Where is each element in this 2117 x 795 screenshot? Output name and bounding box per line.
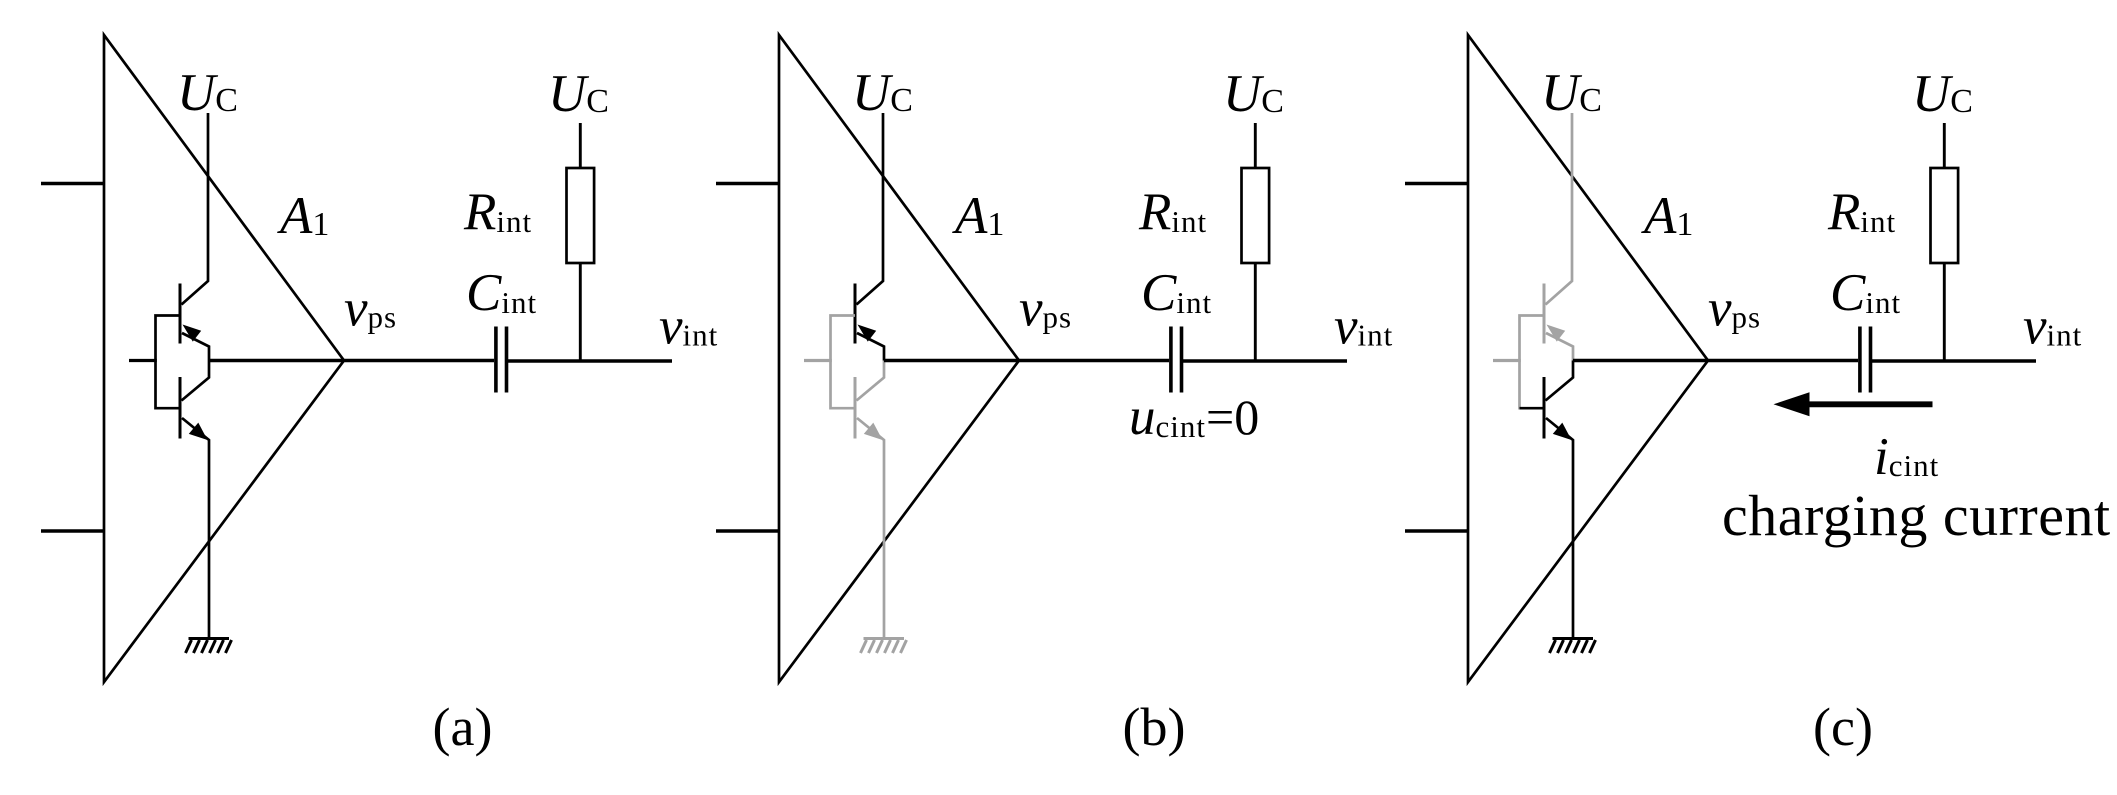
svg-text:(c): (c) [1813, 697, 1873, 757]
svg-text:vint: vint [659, 298, 718, 356]
svg-text:UC: UC [1541, 64, 1602, 122]
ground symbol (a) [186, 639, 232, 654]
wire: drive input stub to bases (b) [804, 359, 832, 362]
svg-text:icint: icint [1874, 428, 1939, 486]
wire: U_C supply to R_int (c) [1943, 123, 1946, 168]
transistor Q1 emitter arrow (a) [183, 325, 202, 342]
transistor Q2 emitter to ground (c) [1546, 418, 1573, 638]
transistor Q1 (top, pull-up) base bar (b) [854, 284, 857, 344]
svg-text:ucint=0: ucint=0 [1129, 388, 1259, 446]
wire: U_C supply to Q1 collector (c) [1546, 113, 1573, 305]
wire: non-inverting input stub (a) [41, 182, 104, 186]
wire: U_C supply to Q1 collector (a) [182, 113, 209, 305]
svg-text:(a): (a) [433, 697, 493, 757]
wire: inverting input stub (b) [716, 529, 779, 533]
charging current arrow (pointing left) [1774, 392, 1933, 416]
wire: base bracket lower arm (a) [156, 407, 181, 410]
wire: non-inverting input stub (c) [1405, 182, 1468, 186]
wire: R_int to v_int node (a) [579, 263, 582, 361]
svg-text:vint: vint [1334, 298, 1393, 356]
op-amp A1 triangle (c) [1468, 35, 1708, 682]
wire: C_int to v_int node (c) [1872, 359, 2036, 362]
wire: drive input stub to bases (a) [129, 359, 157, 362]
capacitor C_int right plate (c) [1869, 327, 1873, 393]
wire: base bracket (c) [1520, 316, 1545, 410]
resistor R_int body (b) [1242, 168, 1270, 263]
wire: non-inverting input stub (b) [716, 182, 779, 186]
svg-text:Rint: Rint [1827, 183, 1896, 241]
ground symbol (c) [1550, 639, 1596, 654]
svg-text:vps: vps [1019, 280, 1072, 338]
svg-text:Rint: Rint [463, 183, 532, 241]
capacitor C_int left plate (b) [1169, 327, 1173, 393]
wire: C_int to v_int node (b) [1183, 359, 1347, 362]
transistor Q1 emitter (b) [857, 333, 884, 361]
svg-text:UC: UC [852, 64, 913, 122]
op-amp A1 triangle (b) [779, 35, 1019, 682]
svg-text:A1: A1 [277, 187, 329, 245]
svg-text:vps: vps [344, 280, 397, 338]
ground symbol (b) [861, 639, 907, 654]
wire: inverting input stub (a) [41, 529, 104, 533]
transistor Q1 emitter (c) [1546, 333, 1573, 361]
transistor Q1 emitter (a) [182, 333, 209, 361]
wire: U_C supply to R_int (b) [1254, 123, 1257, 168]
svg-text:Cint: Cint [466, 264, 537, 322]
op-amp A1 triangle (a) [104, 35, 344, 682]
svg-text:Cint: Cint [1830, 264, 1901, 322]
capacitor C_int right plate (a) [505, 327, 509, 393]
wire: v_ps node from amp output to C_int (b) [884, 359, 1169, 362]
wire: U_C supply to Q1 collector (b) [857, 113, 884, 305]
transistor Q2 emitter to ground (b) [857, 418, 884, 638]
transistor Q2 collector to output node (b) [857, 361, 885, 401]
wire: base bracket (b) [831, 316, 856, 410]
wire: R_int to v_int node (b) [1254, 263, 1257, 361]
transistor Q2 emitter to ground (a) [182, 418, 209, 638]
capacitor C_int right plate (b) [1180, 327, 1184, 393]
transistor Q2 emitter arrow (b) [864, 423, 883, 440]
svg-text:vint: vint [2023, 298, 2082, 356]
svg-text:UC: UC [1223, 65, 1284, 123]
wire: base bracket lower arm (c) [1520, 407, 1545, 410]
transistor Q1 (top, pull-up) base bar (c) [1543, 284, 1546, 344]
transistor Q2 collector to output node (c) [1546, 361, 1574, 401]
transistor Q1 (top, pull-up) base bar (a) [179, 284, 182, 344]
svg-text:A1: A1 [952, 187, 1004, 245]
wire: base bracket lower arm (b) [831, 407, 856, 410]
svg-text:charging current: charging current [1722, 483, 2111, 548]
transistor Q1 emitter arrow (c) [1547, 325, 1566, 342]
svg-text:Rint: Rint [1138, 183, 1207, 241]
svg-text:UC: UC [548, 65, 609, 123]
capacitor C_int left plate (c) [1858, 327, 1862, 393]
transistor Q2 (bottom, pull-down) base bar (a) [179, 377, 182, 439]
wire: drive input stub to bases (c) [1493, 359, 1521, 362]
svg-text:vps: vps [1708, 280, 1761, 338]
wire: R_int to v_int node (c) [1943, 263, 1946, 361]
transistor Q2 collector to output node (a) [182, 361, 210, 401]
wire: U_C supply to R_int (a) [579, 123, 582, 168]
transistor Q1 emitter arrow (b) [858, 325, 877, 342]
resistor R_int body (c) [1931, 168, 1959, 263]
wire: v_ps node from amp output to C_int (c) [1573, 359, 1858, 362]
wire: C_int to v_int node (a) [508, 359, 672, 362]
transistor Q2 emitter arrow (a) [189, 423, 208, 440]
transistor Q2 (bottom, pull-down) base bar (c) [1543, 377, 1546, 439]
svg-text:UC: UC [177, 64, 238, 122]
wire: v_ps node from amp output to C_int (a) [209, 359, 494, 362]
wire: base bracket (a) [156, 316, 181, 410]
svg-text:(b): (b) [1123, 697, 1186, 757]
svg-text:A1: A1 [1641, 187, 1693, 245]
transistor Q2 emitter arrow (c) [1553, 423, 1572, 440]
resistor R_int body (a) [567, 168, 595, 263]
transistor Q2 (bottom, pull-down) base bar (b) [854, 377, 857, 439]
svg-text:Cint: Cint [1141, 264, 1212, 322]
svg-text:UC: UC [1912, 65, 1973, 123]
capacitor C_int left plate (a) [494, 327, 498, 393]
wire: inverting input stub (c) [1405, 529, 1468, 533]
